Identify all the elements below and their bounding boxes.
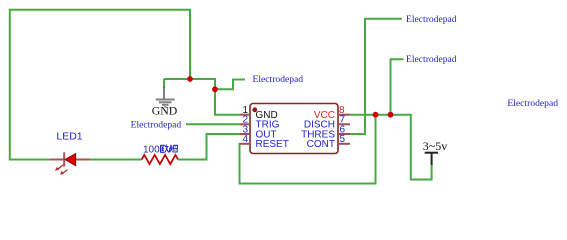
svg-text:5: 5 (340, 134, 346, 145)
wire pin4 RESET bottom loop (240, 115, 376, 184)
wire GND horizontal (164, 78, 216, 80)
pin 6 stub (338, 133, 350, 135)
pin 2 stub (240, 123, 250, 125)
svg-text:GND: GND (152, 104, 178, 118)
wire pin2 TRIG (186, 123, 240, 125)
svg-text:100: 100 (143, 145, 160, 156)
pin numbers (242, 105, 345, 145)
junction VCC/RESET loop (373, 112, 379, 118)
junction at GND wire (187, 76, 193, 82)
pin 3 stub (240, 133, 250, 135)
LED triangle (65, 154, 76, 166)
svg-text:Electrodepad: Electrodepad (406, 14, 457, 25)
pin 8 stub (338, 114, 350, 116)
CJK char ou (simplified strokes) (160, 145, 168, 153)
wire VCC pin8 to battery (350, 115, 432, 180)
wire pin3 OUT to resistor (178, 134, 240, 160)
resistor value 100ohm label (143, 145, 178, 156)
LED D1 (50, 152, 90, 166)
wire top-left loop (net OUT->LED return) (10, 10, 190, 160)
svg-text:3~5v: 3~5v (423, 139, 448, 153)
wire pin1 branch down to IC (215, 79, 240, 115)
junction VCC/label riser (388, 112, 394, 118)
pin 5 stub (338, 143, 350, 145)
wire net-label riser from VCC (391, 59, 404, 114)
pin 1 stub (240, 114, 250, 116)
junction at label branch (212, 86, 218, 92)
pin names (256, 110, 336, 150)
svg-text:4: 4 (242, 134, 248, 145)
op IC U1 box (250, 104, 338, 154)
resistor R1 zigzag (142, 155, 178, 164)
svg-text:RESET: RESET (256, 139, 289, 150)
svg-text:CONT: CONT (307, 139, 335, 150)
wire LED left lead feed (9, 159, 50, 161)
pin stubs left (240, 115, 350, 144)
wire THRES pin6 riser to net label (350, 19, 402, 134)
LED emission arrows (55, 165, 68, 175)
CJK char mu (simplified strokes) (169, 145, 178, 152)
wire GND symbol drop (163, 79, 165, 88)
svg-text:LED1: LED1 (56, 131, 82, 143)
pin 4 stub (240, 143, 250, 145)
svg-text:Electrodepad: Electrodepad (507, 98, 558, 109)
svg-text:Electrodepad: Electrodepad (406, 54, 457, 65)
svg-text:Electrodepad: Electrodepad (253, 74, 304, 85)
wire to net label Electrodepad (pin1 net) (215, 80, 245, 90)
pin 7 stub (338, 123, 350, 125)
battery BT1 3~5v (423, 139, 448, 165)
wire LED to resistor (90, 159, 142, 161)
svg-text:Electrodepad: Electrodepad (131, 120, 182, 131)
ground (156, 87, 175, 107)
pin1 marker dot (252, 107, 257, 112)
